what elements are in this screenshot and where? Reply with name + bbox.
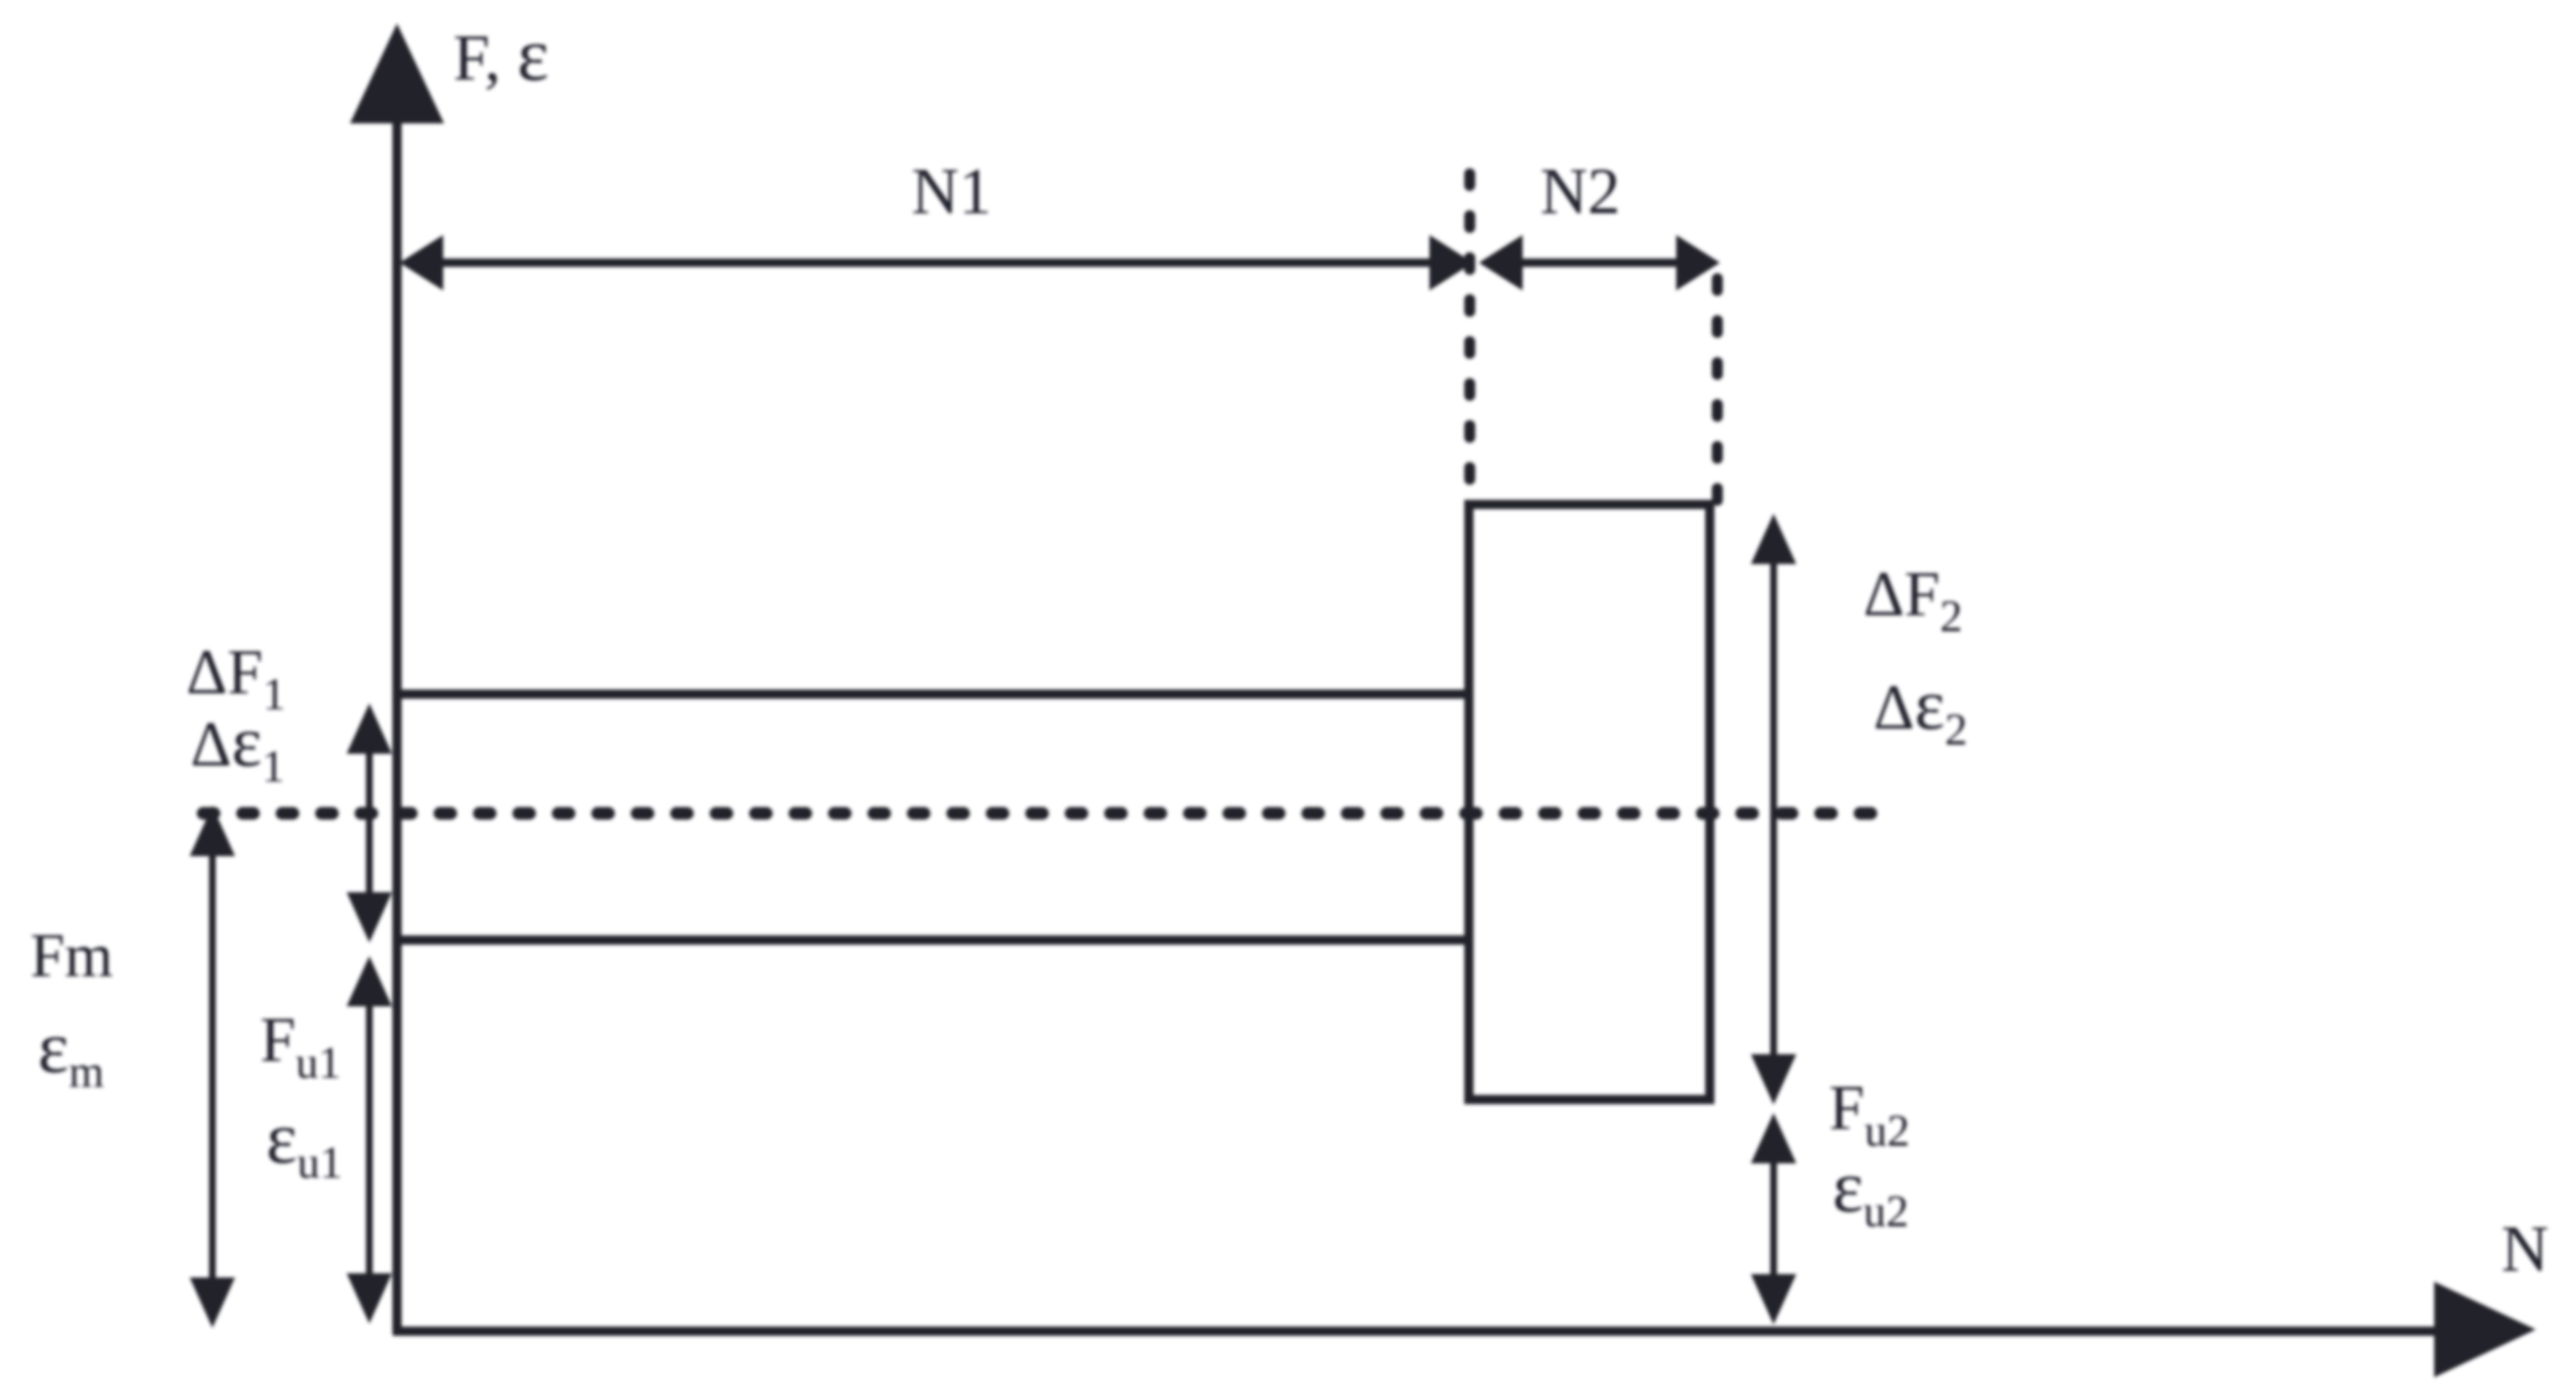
- block 2 rectangle: [1469, 504, 1710, 1100]
- N1 dimension arrow: [424, 259, 1448, 267]
- svg-text:Fm: Fm: [30, 922, 113, 990]
- horizontal axis N: [393, 1327, 2447, 1336]
- dashed vertical projection line right: [1712, 279, 1723, 502]
- svg-text:εu2: εu2: [1832, 1147, 1909, 1236]
- block 1 bottom edge: [397, 936, 1469, 945]
- dashed mean level line: [203, 807, 1877, 820]
- svg-text:Δε2: Δε2: [1873, 664, 1967, 755]
- svg-text:Fu2: Fu2: [1829, 1073, 1910, 1156]
- svg-text:N1: N1: [912, 154, 991, 227]
- svg-text:εm: εm: [38, 1007, 104, 1097]
- vertical axis F,epsilon: [393, 118, 402, 1334]
- block 1 top edge: [397, 690, 1469, 699]
- svg-text:F, ε: F, ε: [453, 13, 549, 97]
- N2 dimension arrow: [1502, 259, 1696, 267]
- dF2 de2 double arrow: [1770, 558, 1777, 1062]
- svg-text:N2: N2: [1540, 154, 1620, 227]
- Fm em mean arrow: [209, 848, 216, 1284]
- svg-text:εu1: εu1: [266, 1098, 342, 1188]
- svg-text:Fu1: Fu1: [260, 1005, 341, 1088]
- Fu2 eu2 arrow: [1770, 1154, 1777, 1284]
- vertical axis arrowhead: [350, 24, 444, 123]
- dF1 de1 double arrow: [366, 739, 373, 911]
- dashed vertical projection line left: [1465, 174, 1476, 502]
- svg-text:N: N: [2501, 1212, 2548, 1285]
- horizontal axis arrowhead: [2434, 1282, 2536, 1377]
- Fu1 eu1 arrow: [366, 999, 373, 1280]
- svg-text:ΔF2: ΔF2: [1863, 559, 1962, 641]
